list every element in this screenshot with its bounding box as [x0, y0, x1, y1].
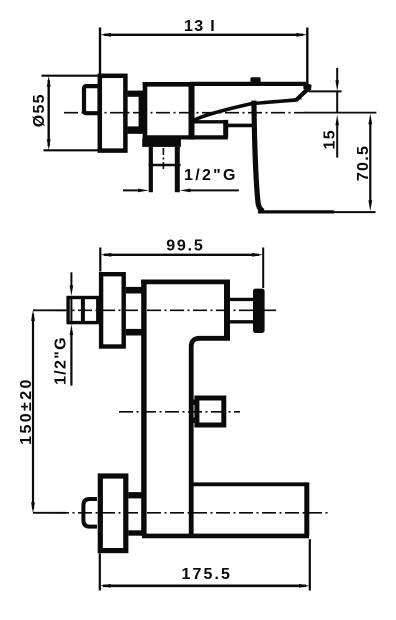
- dimension 131 right arrow: [296, 33, 307, 37]
- body bottom edge and extension: [143, 135, 228, 139]
- spout bottom edge: [142, 534, 309, 539]
- pipe OD through line: [70, 296, 72, 324]
- dimension 70.5 line: [369, 121, 371, 204]
- nut top bar: [128, 91, 142, 97]
- wall fitting square: [84, 86, 100, 113]
- dimension 99.5 left arrow: [100, 253, 111, 257]
- pipe OD upper arrowhead (down): [70, 285, 74, 296]
- handle knob: [253, 289, 265, 333]
- body top edge: [143, 82, 194, 87]
- handle top line: [190, 82, 306, 86]
- outlet joint line: [149, 164, 181, 167]
- handle tip corner fill: [303, 82, 312, 90]
- pipe OD lower shaft leader: [70, 334, 72, 386]
- dimension 175.5 left arrow: [100, 584, 111, 588]
- upper nut top bar: [126, 287, 142, 294]
- svg-text:Ø55: Ø55: [31, 93, 48, 127]
- dimension 175.5 line: [103, 584, 306, 587]
- spout top edge: [193, 482, 307, 486]
- outlet tube right wall: [175, 147, 180, 192]
- dimension O55 bottom arrow: [47, 139, 51, 150]
- handle tip diagonal: [296, 88, 310, 101]
- svg-text:1/2"G: 1/2"G: [52, 336, 69, 385]
- aerator tab on top: [250, 77, 260, 83]
- dimension 150+-20 top arrow: [31, 310, 35, 321]
- spout bottom edge: [258, 210, 334, 213]
- spout back thin edge: [259, 98, 302, 103]
- body left edge / column: [141, 280, 146, 536]
- dimension 150+-20 bottom arrow: [31, 502, 35, 513]
- dimension 131 left arrow: [100, 33, 111, 37]
- body left edge: [143, 82, 148, 140]
- centerline upper assembly: [55, 309, 277, 311]
- diverter mount tab upper: [192, 400, 196, 405]
- diverter square knob: [197, 398, 224, 425]
- step line B: [225, 124, 253, 128]
- dimension 99.5 right arrow: [252, 253, 263, 257]
- body right edge: [224, 280, 230, 339]
- lower inlet collar (rounded): [83, 499, 97, 527]
- svg-text:1/2"G: 1/2"G: [184, 167, 238, 184]
- upper flange: [101, 274, 124, 346]
- pipe OD upper arrow shaft: [70, 272, 72, 287]
- dimension 99.5 left extension: [99, 248, 101, 272]
- dimension 15 upper arrow (down): [335, 80, 339, 91]
- spout bottom extension line: [334, 211, 376, 213]
- dimension 99.5 line: [104, 254, 259, 256]
- outlet collar: [142, 139, 181, 147]
- handle underside curve: [194, 100, 297, 121]
- dimension 15 mid segment: [336, 91, 338, 112]
- nut bottom bar: [128, 126, 142, 133]
- dimension 175.5 right extension: [309, 539, 311, 590]
- dimension 131 right extension line: [306, 28, 308, 87]
- dimension 15 lower arrow (up): [335, 115, 339, 126]
- centerline top view: [64, 112, 307, 114]
- dimension 131 left extension line: [99, 28, 101, 75]
- dimension O55 top extension line: [42, 75, 100, 77]
- nut right face: [139, 91, 144, 134]
- 1/2G left arrowhead: [138, 189, 149, 193]
- dimension 175.5 right arrow: [299, 584, 310, 588]
- svg-text:15: 15: [322, 129, 339, 149]
- handle stem top line: [228, 298, 253, 301]
- body right edge: [189, 82, 195, 140]
- svg-text:70.5: 70.5: [355, 145, 372, 181]
- svg-text:150±20: 150±20: [18, 377, 35, 445]
- 1/2G right arrowhead: [180, 189, 191, 193]
- pipe OD lower arrowhead (up): [70, 324, 74, 335]
- dimension 150+-20 line: [32, 314, 34, 509]
- lower nut top bar: [128, 492, 142, 498]
- waterfall spout front edge: [254, 101, 264, 212]
- inlet pipe and collar outline: [68, 298, 98, 323]
- centerline extension to 70.5 dim: [304, 112, 377, 114]
- 1/2G right arrow line: [190, 189, 239, 191]
- dimension 99.5 right extension: [262, 248, 264, 289]
- outlet centerline: [162, 148, 164, 172]
- dimension O55 top arrow: [47, 76, 51, 87]
- step line A: [193, 120, 224, 123]
- dimension 70.5 top arrow: [368, 113, 372, 124]
- dimension 15 lower shaft: [336, 125, 338, 158]
- upper nut bottom bar: [126, 329, 142, 336]
- dimension 15 upper shaft: [336, 68, 338, 82]
- centerline lower assembly: [55, 512, 330, 514]
- dimension O55 line: [48, 80, 50, 146]
- lower flange: [100, 476, 126, 551]
- 1/2G left arrow line: [123, 189, 140, 191]
- diverter mount tab lower: [192, 418, 196, 423]
- dimension O55 bottom extension line: [44, 149, 100, 151]
- outlet tube left wall: [149, 147, 153, 192]
- dimension 70.5 bottom arrow: [368, 200, 372, 211]
- inlet pipe divider: [81, 296, 85, 324]
- spout right edge: [304, 482, 309, 536]
- body top edge: [141, 280, 230, 285]
- handle stem bottom line: [228, 320, 253, 323]
- step vertical V1: [223, 120, 228, 138]
- svg-text:99.5: 99.5: [166, 238, 204, 255]
- dimension 131 line: [104, 34, 303, 36]
- svg-text:13 I: 13 I: [184, 18, 216, 35]
- centerline middle: [119, 411, 240, 413]
- svg-text:175.5: 175.5: [182, 566, 233, 583]
- dimension 175.5 left extension: [99, 553, 101, 590]
- lower nut bottom bar: [128, 530, 142, 535]
- wall flange: [100, 76, 126, 151]
- dimension 150+-20 bottom extension: [33, 512, 66, 514]
- body shelf and corner arc to column: [191, 338, 230, 535]
- dimension 150+-20 top extension: [33, 309, 66, 311]
- extension line handle underside: [309, 90, 342, 92]
